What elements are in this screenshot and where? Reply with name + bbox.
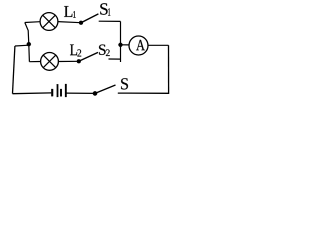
wire right edge vertical bbox=[168, 45, 170, 94]
node junction right bbox=[118, 43, 122, 47]
label L2 letter bbox=[70, 45, 77, 56]
battery cell plate short negative left bbox=[51, 89, 53, 96]
switch S1 pivot dot bbox=[79, 21, 83, 25]
label L2 subscript 2 bbox=[77, 49, 81, 56]
wire battery to switch S bbox=[66, 92, 95, 94]
ammeter meter circle bbox=[129, 36, 148, 55]
battery cell plate long positive left bbox=[57, 84, 59, 97]
label S1 subscript 1 bbox=[108, 8, 110, 15]
wire left outer vertical bbox=[13, 46, 15, 94]
label L1 subscript 1 bbox=[73, 11, 76, 18]
wire right column vertical bbox=[120, 21, 122, 62]
wire bottom right bbox=[118, 92, 169, 94]
ammeter letter A bbox=[136, 40, 145, 50]
lamp L1 bbox=[40, 13, 58, 31]
wire inner left slanted bbox=[25, 23, 30, 62]
battery cell plate short negative right bbox=[60, 89, 62, 96]
switch S pivot dot bbox=[93, 91, 97, 95]
wire S1 fixed contact to right column bbox=[99, 20, 121, 22]
switch S blade bbox=[95, 85, 116, 93]
wire ammeter to right edge bbox=[149, 44, 169, 46]
label S2 letter bbox=[99, 45, 106, 55]
wire L2 branch left bbox=[29, 61, 40, 63]
switch S2 blade bbox=[79, 52, 98, 61]
label S1 letter bbox=[100, 3, 107, 14]
label L1 letter bbox=[64, 6, 72, 17]
wire left tap horizontal bbox=[15, 44, 29, 47]
wire L1 to switch S1 pivot bbox=[58, 22, 81, 23]
switch S2 pivot dot bbox=[77, 59, 81, 63]
wire top-left horizontal bbox=[25, 21, 40, 24]
switch S1 blade bbox=[81, 14, 98, 23]
wire L2 to switch S2 pivot bbox=[58, 60, 78, 62]
wire S2 fixed contact bbox=[109, 58, 121, 60]
node junction left bbox=[27, 42, 31, 46]
battery cell plate long positive right bbox=[65, 84, 67, 97]
label S2 subscript 2 bbox=[106, 49, 110, 56]
wire bottom left to battery bbox=[13, 92, 52, 95]
label S letter bbox=[121, 78, 128, 89]
wire junction to ammeter bbox=[121, 44, 129, 46]
lamp L2 bbox=[41, 53, 59, 71]
